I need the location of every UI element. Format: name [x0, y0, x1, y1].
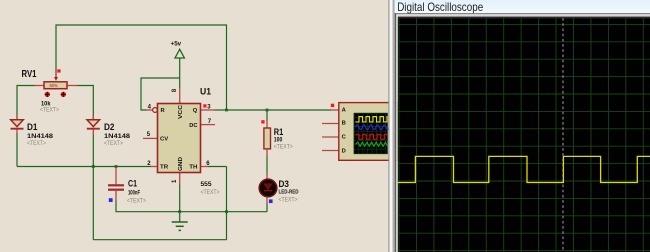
wire R1 bottom to D3 anode [266, 156, 268, 174]
junction D2/mid rail [92, 165, 95, 168]
pin number 7 [208, 119, 212, 125]
U1 pin name R [161, 108, 166, 114]
U1 pin name GND (rotated) [178, 157, 184, 171]
pin stub pin1 GND [179, 173, 181, 186]
wire top rail from RV1 wiper to output node [56, 25, 227, 110]
wire output node down to R1 [266, 110, 268, 122]
ground symbol [172, 222, 188, 230]
R1 state red square [261, 120, 264, 123]
oscilloscope trace channel A square wave [398, 156, 650, 182]
svg-text:D1: D1 [27, 122, 38, 132]
pin stub scope input C [322, 136, 339, 138]
svg-text:D3: D3 [279, 179, 290, 189]
svg-text:Q: Q [193, 108, 198, 114]
pin stub pin4 R with wire [146, 109, 153, 111]
wire TH pin6 to right vertical [208, 167, 227, 240]
svg-text:1N4148: 1N4148 [27, 133, 54, 140]
wire bottom rail [93, 239, 226, 241]
pin stub pin5 CV [143, 137, 158, 139]
U1 pin name CV [160, 136, 168, 142]
wire RV1 right terminal to D2 anode [77, 86, 93, 120]
pin stub pin6 TH [201, 166, 209, 168]
svg-text:DC: DC [189, 123, 198, 129]
pin4 inversion bubble [153, 108, 158, 113]
pin number 8 (rotated) [172, 88, 178, 92]
scope preview screen [354, 113, 388, 154]
wire reset pin4 to +5v rail [141, 58, 180, 110]
svg-text:<TEXT>: <TEXT> [104, 140, 123, 147]
U1 pin name Q [193, 108, 198, 114]
pin number 5 [147, 132, 151, 138]
RV1 terminal circle right [61, 92, 66, 97]
oscilloscope window title bar [395, 0, 650, 13]
svg-text:100: 100 [274, 137, 283, 144]
C1 blue state square [109, 198, 113, 202]
wire RV1 right red segment [67, 85, 78, 87]
scope channel label A [342, 107, 347, 113]
pin3 state red square [203, 104, 206, 107]
window title text Digital Oscilloscope [397, 0, 483, 14]
RV1 placeholder TEXT [40, 106, 59, 113]
label U1 [200, 87, 212, 98]
svg-text:100nF: 100nF [128, 189, 140, 196]
potentiometer RV1 [44, 71, 67, 89]
U1 pin name VCC (rotated) [178, 104, 184, 119]
pin stub pin2 TR [151, 166, 158, 168]
svg-text:CV: CV [160, 136, 168, 142]
junction C1 top [115, 165, 118, 168]
svg-text:<TEXT>: <TEXT> [127, 197, 146, 204]
oscilloscope screen [398, 18, 650, 252]
pin stub scope input A [331, 109, 339, 111]
scope channel label B [342, 121, 346, 127]
screen sunken frame [395, 13, 650, 252]
capacitor C1 [108, 167, 124, 201]
scope preview grid [354, 113, 388, 154]
svg-text:+5v: +5v [171, 40, 182, 47]
pin number 2 [147, 161, 151, 167]
svg-text:50%: 50% [50, 83, 58, 88]
svg-text:R1: R1 [274, 127, 284, 137]
pin stub pin8 VCC [179, 89, 181, 104]
svg-text:B: B [342, 121, 346, 127]
oscilloscope screen grid [398, 18, 650, 252]
wire ground net from pin1 to ground symbol [179, 185, 181, 222]
U1 pin name TR [160, 164, 169, 170]
label D2 [104, 122, 115, 132]
pin number 3 [207, 105, 211, 111]
svg-text:RV1: RV1 [22, 68, 37, 80]
label RV1 [22, 68, 37, 80]
label +5v [171, 40, 182, 47]
scope channel label C [342, 135, 347, 141]
D1 placeholder TEXT [27, 140, 46, 147]
svg-text:<TEXT>: <TEXT> [201, 189, 220, 196]
pin stub scope input D [322, 150, 339, 152]
scope preview trace C red [356, 134, 388, 139]
value 100nF [128, 189, 140, 196]
wire D3 cathode down [266, 203, 268, 212]
power +5v arrow [175, 49, 184, 58]
pin number 4 [148, 105, 152, 111]
value 1N4148 (D1) [27, 133, 54, 140]
label D1 [27, 122, 38, 132]
junction ground net [178, 210, 181, 213]
label C1 [128, 178, 137, 188]
pin number 1 (rotated) [172, 179, 178, 183]
D2 placeholder TEXT [104, 140, 123, 147]
svg-text:C1: C1 [128, 178, 137, 188]
C1 placeholder TEXT [127, 197, 146, 204]
junction R1 [266, 109, 269, 112]
RV1 terminal circle left [45, 92, 50, 97]
diode D2 [87, 115, 100, 135]
label R1 [274, 127, 284, 137]
D3 blue state square [269, 199, 273, 203]
svg-text:555: 555 [201, 181, 212, 188]
value 100 [274, 137, 283, 144]
svg-text:TR: TR [160, 164, 169, 170]
scope preview trace B blue [356, 125, 390, 130]
pin stub scope input B [322, 123, 339, 125]
oscilloscope component body [339, 103, 398, 161]
scope channel label D [342, 148, 346, 154]
wire C1 bottom to ground rail to D3 cathode [116, 201, 267, 212]
value LED-RED [279, 189, 299, 195]
resistor R1 [264, 121, 271, 157]
svg-text:<TEXT>: <TEXT> [27, 140, 46, 147]
value 555 [201, 181, 212, 188]
scope preview trace D green [356, 142, 388, 146]
oscilloscope window glass left border [388, 0, 394, 252]
junction output/top rail [225, 109, 228, 112]
wire RV1 left red segment [35, 85, 45, 87]
pin stub pin3 Q [201, 109, 216, 111]
R1 placeholder TEXT [274, 144, 293, 151]
wire D1 cathode down to mid rail [16, 133, 18, 167]
U1 pin name TH [189, 164, 197, 170]
U1 placeholder TEXT [201, 189, 220, 196]
D3 placeholder TEXT [279, 196, 298, 203]
junction TH rail/ground wire [225, 210, 228, 213]
svg-text:<TEXT>: <TEXT> [274, 144, 293, 151]
svg-text:D2: D2 [104, 122, 115, 132]
pin number 6 [206, 161, 210, 167]
value 10k [41, 100, 51, 107]
svg-text:TH: TH [189, 164, 197, 170]
svg-text:D: D [342, 148, 346, 154]
svg-text:LED-RED: LED-RED [279, 189, 299, 195]
RV1 state red square [57, 69, 60, 72]
pin stub pin7 DC [201, 124, 216, 126]
LED D3 [259, 174, 277, 204]
wire output pin3 to scope input A [215, 109, 332, 111]
svg-text:Digital Oscilloscope: Digital Oscilloscope [397, 0, 483, 14]
value 1N4148 (D2) [104, 133, 131, 140]
wire mid rail (D1/D2/C1 to TR pin2) [17, 166, 151, 168]
svg-text:<TEXT>: <TEXT> [279, 196, 298, 203]
wire RV1 left terminal to D1 anode [17, 86, 35, 120]
scope preview trace A yellow [356, 117, 388, 122]
scope input A state red square [331, 104, 334, 107]
svg-text:VCC: VCC [178, 104, 184, 119]
svg-text:U1: U1 [200, 87, 212, 98]
oscilloscope cursor dashed line [562, 18, 564, 252]
diode D1 [11, 115, 24, 135]
wire D2 cathode down through mid rail to bottom rail [92, 133, 94, 240]
label D3 [279, 179, 290, 189]
svg-text:1N4148: 1N4148 [104, 133, 131, 140]
svg-text:<TEXT>: <TEXT> [40, 106, 59, 113]
U1 pin name DC [189, 123, 198, 129]
555 timer U1 body [158, 104, 201, 173]
svg-text:GND: GND [178, 157, 184, 171]
